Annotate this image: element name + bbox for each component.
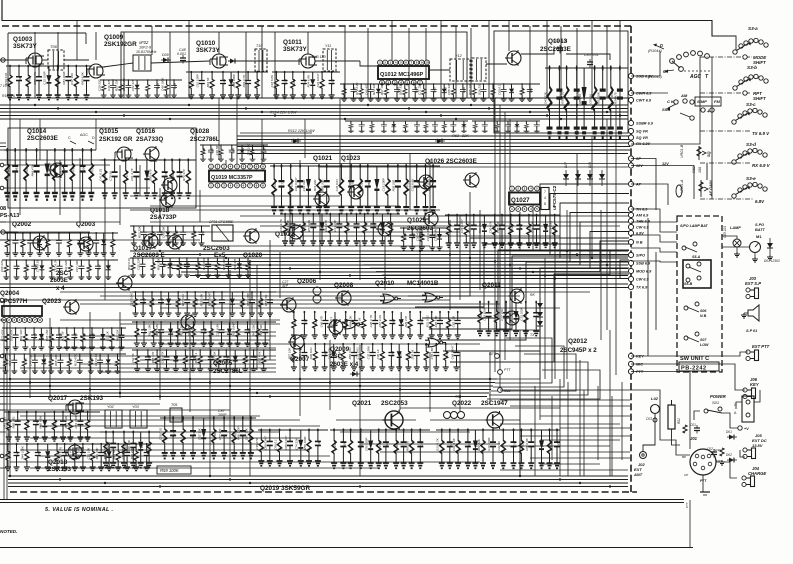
speaker SP01 — [741, 305, 759, 333]
diode — [105, 354, 111, 374]
svg-text:R11 22K: R11 22K — [179, 324, 183, 336]
wire signal path 6 — [315, 60, 360, 62]
svg-text:C61 100P: C61 100P — [196, 74, 200, 87]
wire bus A2 line 1 — [237, 135, 630, 137]
svg-text:R35 0.1: R35 0.1 — [194, 352, 198, 363]
svg-text:C79 56: C79 56 — [108, 171, 112, 181]
wire vertical link — [139, 165, 141, 196]
svg-text:R59 100K: R59 100K — [160, 468, 179, 473]
wire horizontal link — [160, 307, 560, 309]
svg-text:D55: D55 — [33, 333, 37, 339]
node 6.8V — [628, 230, 644, 235]
resistor — [86, 232, 92, 256]
svg-text:S.PO: S.PO — [755, 223, 764, 227]
svg-text:C67 10K: C67 10K — [75, 259, 79, 272]
svg-text:22K: 22K — [461, 134, 469, 138]
svg-text:R35: R35 — [25, 264, 29, 270]
node S/PO — [628, 252, 645, 257]
svg-text:C99 15K: C99 15K — [298, 347, 302, 360]
svg-text:R86: R86 — [403, 233, 407, 239]
svg-text:Q1023: Q1023 — [341, 155, 361, 162]
svg-text:R88 100P: R88 100P — [232, 74, 236, 87]
capacitor — [34, 148, 40, 200]
node mode — [743, 55, 747, 59]
svg-text:C88: C88 — [173, 83, 177, 89]
capacitor — [315, 429, 321, 466]
svg-text:C57: C57 — [194, 298, 198, 304]
svg-text:Q2017: Q2017 — [48, 395, 68, 402]
logic gate U2010d — [425, 338, 446, 347]
svg-text:C88 33K: C88 33K — [447, 82, 451, 95]
resistor — [423, 164, 429, 213]
potentiometer VR01-B — [680, 144, 711, 160]
diode — [226, 322, 232, 346]
wire right trunk 3 — [631, 166, 694, 200]
wire vertical — [470, 28, 472, 98]
capacitor — [481, 83, 487, 101]
svg-text:7: 7 — [544, 190, 546, 194]
wire horizontal link — [40, 455, 330, 457]
svg-text:C61 4.7K: C61 4.7K — [130, 167, 134, 181]
svg-text:D61 22K: D61 22K — [115, 329, 119, 342]
svg-text:C41: C41 — [170, 328, 174, 334]
node AF — [628, 181, 641, 186]
svg-text:S3-e: S3-e — [746, 176, 756, 181]
capacitor — [359, 121, 365, 133]
diode — [42, 412, 48, 441]
wire bus C line 2 — [0, 382, 495, 384]
svg-text:C90 0.01: C90 0.01 — [77, 447, 81, 460]
svg-text:Q1014: Q1014 — [27, 128, 47, 135]
resistor — [338, 164, 344, 213]
svg-text:C76 1K: C76 1K — [337, 348, 341, 359]
svg-text:SQ: SQ — [707, 151, 711, 157]
svg-text:D68 33K: D68 33K — [54, 353, 58, 366]
wire right trunk 1 — [711, 57, 713, 199]
wire horizontal link — [540, 415, 630, 417]
svg-text:D74 10K: D74 10K — [246, 143, 250, 156]
wire vertical link — [329, 340, 331, 410]
resistor — [441, 121, 447, 133]
svg-text:C38: C38 — [419, 441, 423, 447]
svg-text:T10: T10 — [256, 44, 262, 48]
svg-text:R93: R93 — [519, 224, 523, 230]
wire horizontal link — [30, 437, 300, 439]
capacitor — [208, 144, 214, 161]
svg-text:R63 56: R63 56 — [206, 77, 210, 87]
resistor — [526, 214, 532, 248]
resistor — [359, 343, 365, 371]
wire horizontal link — [10, 461, 350, 463]
wire vertical — [57, 32, 59, 98]
wire vertical link — [229, 270, 231, 476]
wire bus B line 8 — [190, 275, 628, 277]
node pins Q1027 top — [510, 186, 540, 191]
resistor — [291, 311, 297, 339]
diode — [229, 292, 235, 316]
svg-text:Q2003: Q2003 — [76, 221, 96, 228]
resistor — [471, 83, 477, 101]
svg-text:R63 56: R63 56 — [112, 449, 116, 459]
wire horizontal link — [0, 221, 120, 223]
svg-text:S06: S06 — [700, 309, 707, 313]
label PB-2242 — [679, 362, 719, 372]
capacitor — [225, 257, 231, 277]
wire bus B line 5 — [163, 264, 628, 266]
wire bus A line 1 — [0, 104, 628, 106]
svg-text:R78 47K: R78 47K — [258, 351, 262, 364]
transistor Q2021 — [382, 410, 403, 431]
wire tx dashdot — [700, 130, 750, 132]
node KEY — [628, 353, 644, 358]
node THE 6.9 — [628, 218, 650, 223]
svg-text:R61: R61 — [14, 166, 18, 172]
svg-text:R69 22K: R69 22K — [477, 438, 481, 451]
svg-text:C13 33P: C13 33P — [333, 220, 337, 232]
wire vertical — [76, 21, 78, 60]
wire vertical link — [218, 98, 220, 160]
wire vertical link — [236, 98, 238, 165]
svg-text:4: 4 — [544, 196, 546, 200]
wire horizontal link — [60, 319, 280, 321]
resistor — [409, 428, 415, 468]
capacitor — [124, 443, 130, 471]
diode — [396, 344, 402, 371]
capacitor — [32, 353, 38, 373]
resistor — [552, 214, 558, 248]
node CWR 6.9 — [628, 90, 652, 95]
connector battery term — [742, 396, 754, 422]
diode — [319, 214, 325, 245]
wire vertical link — [519, 212, 521, 251]
wire horizontal link — [560, 427, 630, 429]
wire horizontal link — [130, 209, 440, 211]
resistor R02 — [683, 425, 687, 433]
svg-text:C65 10K: C65 10K — [162, 225, 166, 238]
svg-text:R65: R65 — [68, 358, 72, 364]
svg-text:R45: R45 — [192, 430, 196, 436]
svg-text:R53 33K: R53 33K — [138, 225, 142, 238]
wire vertical — [151, 26, 153, 55]
transistor Q1020 — [243, 228, 259, 244]
capacitor — [437, 311, 443, 339]
svg-text:C39: C39 — [125, 171, 129, 177]
capacitor — [57, 259, 63, 279]
svg-text:D09: D09 — [162, 53, 169, 57]
capacitor C01 — [694, 425, 700, 434]
svg-text:R13 0.01: R13 0.01 — [202, 258, 206, 271]
wire bus B line 3 — [146, 257, 628, 259]
node AM 6.9 — [628, 212, 649, 217]
crystal/filter Y02 — [105, 410, 122, 428]
transistor Q1009 — [87, 64, 105, 78]
capacitor — [36, 65, 42, 100]
svg-text:N B: N B — [700, 314, 707, 318]
capacitor — [208, 349, 214, 372]
resistor — [383, 83, 389, 101]
resistor — [490, 83, 496, 101]
wire Q1025 stage feeder — [400, 227, 446, 250]
diode — [368, 430, 374, 468]
op-amp Q1019 MC3357P — [209, 171, 265, 182]
diode D02 — [727, 458, 737, 463]
resistor — [88, 148, 94, 200]
svg-text:C49 15K: C49 15K — [29, 353, 33, 366]
wire Q2005 upper feeder — [129, 291, 276, 316]
resistor — [494, 121, 500, 133]
resistor — [214, 257, 220, 277]
svg-text:C03: C03 — [646, 417, 652, 421]
wire vertical link — [591, 136, 593, 258]
wire bus D line 1 — [8, 475, 628, 477]
svg-text:PTT: PTT — [700, 479, 707, 483]
svg-text:D26: D26 — [510, 224, 514, 230]
wire horizontal link — [160, 343, 480, 345]
svg-text:CHARGE: CHARGE — [748, 471, 766, 476]
capacitor — [249, 291, 255, 316]
connector EXTPTT — [746, 350, 759, 361]
diode — [201, 418, 207, 458]
svg-text:R86: R86 — [247, 262, 251, 268]
capacitor — [503, 301, 509, 336]
svg-text:Q1010: Q1010 — [196, 40, 216, 47]
capacitor — [220, 71, 226, 99]
wire mixer stage feeder — [159, 416, 257, 458]
svg-text:D03 12363: D03 12363 — [764, 259, 780, 263]
svg-text:D29 470: D29 470 — [404, 316, 408, 328]
wire ext ptt — [631, 352, 748, 356]
resistor — [348, 121, 354, 133]
wire vertical link — [499, 105, 501, 390]
svg-text:R87 10K: R87 10K — [288, 347, 292, 360]
svg-text:Q1026 2SC2603E: Q1026 2SC2603E — [425, 158, 478, 165]
svg-text:C19 100K: C19 100K — [487, 437, 491, 451]
svg-text:R42: R42 — [448, 224, 452, 230]
svg-text:R77: R77 — [343, 87, 347, 93]
wire bus B line 2 — [138, 254, 628, 256]
capacitor — [158, 321, 164, 346]
svg-text:T05: T05 — [171, 403, 177, 407]
svg-text:R15 22K: R15 22K — [313, 179, 317, 192]
capacitor — [80, 443, 86, 471]
switch S3-c — [732, 108, 767, 124]
capacitor — [354, 213, 360, 246]
wire lamp feed — [722, 236, 737, 239]
resistor — [23, 259, 29, 279]
svg-text:C85: C85 — [314, 319, 318, 325]
svg-text:C20: C20 — [263, 148, 267, 154]
svg-text:C74 0.01: C74 0.01 — [553, 39, 568, 43]
wire bus B line 1 — [130, 250, 628, 252]
diode — [44, 150, 50, 200]
wire bus B2 line 1 — [0, 283, 628, 285]
resistor — [331, 428, 337, 468]
wire vertical link — [532, 205, 534, 251]
capacitor — [365, 164, 371, 213]
svg-text:R19 0.01: R19 0.01 — [4, 72, 8, 85]
capacitor — [454, 214, 460, 248]
svg-text:R42: R42 — [178, 262, 182, 268]
wire vertical — [218, 32, 220, 54]
transistor Q1028 — [161, 177, 177, 193]
svg-text:C20: C20 — [333, 441, 337, 447]
resistor — [564, 65, 570, 137]
transistor Q1003 — [26, 53, 44, 67]
resistor — [175, 291, 181, 316]
capacitor — [219, 321, 225, 346]
wire vertical — [344, 26, 346, 98]
resistor — [149, 291, 155, 316]
diode — [167, 258, 173, 278]
svg-text:D97 33K: D97 33K — [245, 427, 249, 440]
svg-text:C60: C60 — [190, 79, 194, 85]
wire bus D line 3 — [8, 482, 628, 484]
resistor — [381, 311, 387, 339]
svg-text:CWR 6.9: CWR 6.9 — [636, 92, 652, 96]
capacitor — [617, 65, 623, 137]
svg-text:R51: R51 — [107, 264, 111, 270]
diode — [441, 84, 447, 101]
svg-text:PS-A13: PS-A13 — [0, 213, 19, 219]
svg-text:THE 6.9: THE 6.9 — [636, 220, 651, 224]
svg-text:C39: C39 — [382, 222, 386, 228]
resistor — [54, 443, 60, 471]
node M12 — [498, 388, 503, 393]
svg-text:D91: D91 — [302, 222, 306, 228]
svg-text:PTT: PTT — [504, 368, 511, 372]
svg-text:R30: R30 — [420, 319, 424, 325]
wire br horizontals — [500, 400, 630, 470]
diode — [105, 260, 111, 280]
capacitor — [180, 225, 186, 245]
wire chassis dashed border top — [2, 25, 631, 27]
wire vertical link — [256, 265, 258, 370]
svg-text:C48 15K: C48 15K — [434, 315, 438, 328]
switch S5-A — [682, 242, 701, 259]
svg-text:D92 15K: D92 15K — [187, 324, 191, 337]
wire vertical — [123, 32, 125, 98]
wire bottom double rule A — [0, 499, 684, 501]
wire horizontal link — [340, 431, 470, 433]
capacitor — [203, 291, 209, 316]
resistor — [185, 158, 191, 198]
capacitor — [482, 121, 488, 133]
wire vertical link — [600, 210, 602, 340]
wire left stubs — [0, 143, 6, 468]
wire horizontal link — [100, 371, 276, 373]
svg-text:uPC577H: uPC577H — [0, 298, 28, 305]
wire horizontal link — [150, 221, 630, 223]
svg-text:ANT: ANT — [633, 472, 643, 477]
svg-text:Q2012: Q2012 — [568, 338, 588, 345]
capacitor — [574, 65, 580, 137]
svg-text:10F2-9: 10F2-9 — [139, 46, 152, 50]
resistor — [523, 121, 529, 133]
svg-text:D66: D66 — [43, 358, 47, 364]
svg-text:C15: C15 — [169, 262, 173, 268]
svg-text:R52: R52 — [37, 451, 41, 457]
wire horizontal link — [240, 215, 630, 217]
wire br verticals — [520, 382, 622, 476]
resistor — [480, 428, 486, 468]
svg-text:08: 08 — [0, 206, 6, 212]
wire stage box row2 — [8, 128, 196, 208]
resistor — [169, 158, 175, 198]
wire vertical link — [539, 330, 541, 420]
resistor — [80, 327, 86, 350]
wire horizontal link — [300, 235, 560, 237]
diode — [379, 214, 385, 245]
capacitor — [71, 327, 77, 350]
wire vertical link — [459, 215, 461, 300]
svg-text:KEY: KEY — [489, 352, 497, 356]
wire horizontal link — [150, 205, 400, 207]
svg-text:D37: D37 — [18, 75, 22, 81]
svg-text:R29 15K: R29 15K — [115, 78, 119, 91]
svg-text:VR01-B: VR01-B — [680, 144, 684, 158]
svg-text:R114 22K 1/8W: R114 22K 1/8W — [270, 111, 297, 115]
svg-text:R44: R44 — [186, 262, 190, 268]
wire horizontal link — [0, 403, 160, 405]
capacitor — [554, 428, 560, 468]
wire left stub 1 — [0, 59, 28, 61]
svg-text:D87: D87 — [343, 441, 347, 447]
svg-text:R68: R68 — [385, 441, 389, 447]
wire signal path 3 — [103, 63, 133, 67]
svg-text:D88 33K: D88 33K — [399, 82, 403, 95]
svg-text:R14: R14 — [90, 166, 94, 172]
svg-text:D17 33K: D17 33K — [70, 72, 74, 85]
wire Q1028 stage feeder — [200, 143, 268, 162]
transistor Q1010 — [210, 54, 228, 68]
resistor — [547, 428, 553, 468]
resistor — [6, 411, 12, 441]
wire vertical — [529, 26, 531, 98]
resistor — [393, 428, 399, 468]
svg-text:R83: R83 — [57, 75, 61, 81]
resistor — [173, 225, 179, 245]
connector J02 — [640, 452, 647, 459]
resistor — [69, 148, 75, 200]
diode — [332, 312, 338, 339]
wire vertical link — [509, 119, 511, 340]
wire vertical link — [519, 330, 521, 476]
capacitor — [412, 83, 418, 101]
svg-text:R62 33P: R62 33P — [19, 330, 23, 342]
capacitor — [417, 428, 423, 468]
svg-text:C21 1K: C21 1K — [106, 330, 110, 341]
capacitor — [251, 349, 257, 372]
svg-text:R52 0.047: R52 0.047 — [231, 322, 235, 336]
capacitor — [282, 71, 288, 99]
resistor — [379, 343, 385, 371]
wire meter feed — [722, 246, 750, 248]
wire vertical — [367, 28, 369, 98]
resistor — [472, 121, 478, 133]
svg-text:2SC2053: 2SC2053 — [381, 400, 408, 407]
node +V — [738, 426, 742, 430]
wire bus D line 4 — [8, 486, 628, 488]
resistor — [110, 232, 116, 256]
svg-text:Q2010: Q2010 — [375, 280, 395, 287]
svg-text:D83 100K: D83 100K — [62, 70, 66, 84]
diode — [513, 302, 519, 336]
svg-text:GND: GND — [714, 448, 722, 452]
svg-text:R63: R63 — [364, 222, 368, 228]
capacitor C02 — [711, 449, 717, 458]
capacitor — [164, 349, 170, 372]
resistor — [109, 327, 115, 350]
